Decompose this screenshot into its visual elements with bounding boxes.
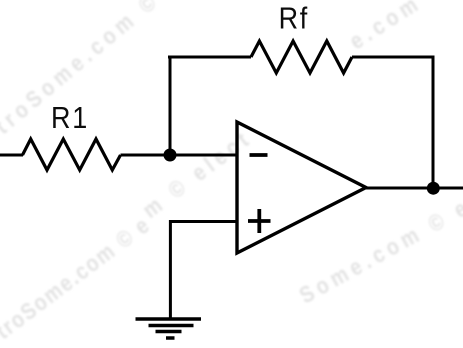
ground: [136, 319, 202, 338]
resistor Rf: [251, 41, 352, 73]
svg-text:troSome.com © e: troSome.com © e: [0, 211, 155, 344]
wire: Rf to output node top segment: [352, 56, 435, 59]
svg-text:Some.com © el: Some.com © el: [295, 188, 463, 309]
wire: non-inverting input horizontal: [170, 220, 236, 223]
resistor R1: [23, 139, 121, 170]
op-amp non-inverting input marker (+): [248, 209, 271, 233]
svg-text:R1: R1: [51, 102, 89, 136]
wire: R1 to inverting input: [121, 154, 237, 157]
op-amp inverting input marker (-): [250, 153, 268, 157]
svg-text:Rf: Rf: [279, 2, 309, 36]
svg-text:e.com © e: e.com © e: [345, 0, 463, 55]
junction: inverting input node: [164, 149, 177, 162]
op-amp U1: [237, 122, 366, 253]
wire: feedback top left segment: [168, 56, 251, 59]
svg-text:m © elect: m © elect: [138, 124, 257, 223]
wire: ground stem: [169, 220, 172, 319]
wire: input lead to R1: [0, 154, 23, 157]
wire: feedback right vertical: [432, 56, 435, 189]
wire: output: [364, 187, 463, 190]
junction: output node: [427, 182, 440, 195]
wire: feedback left vertical: [169, 56, 172, 156]
